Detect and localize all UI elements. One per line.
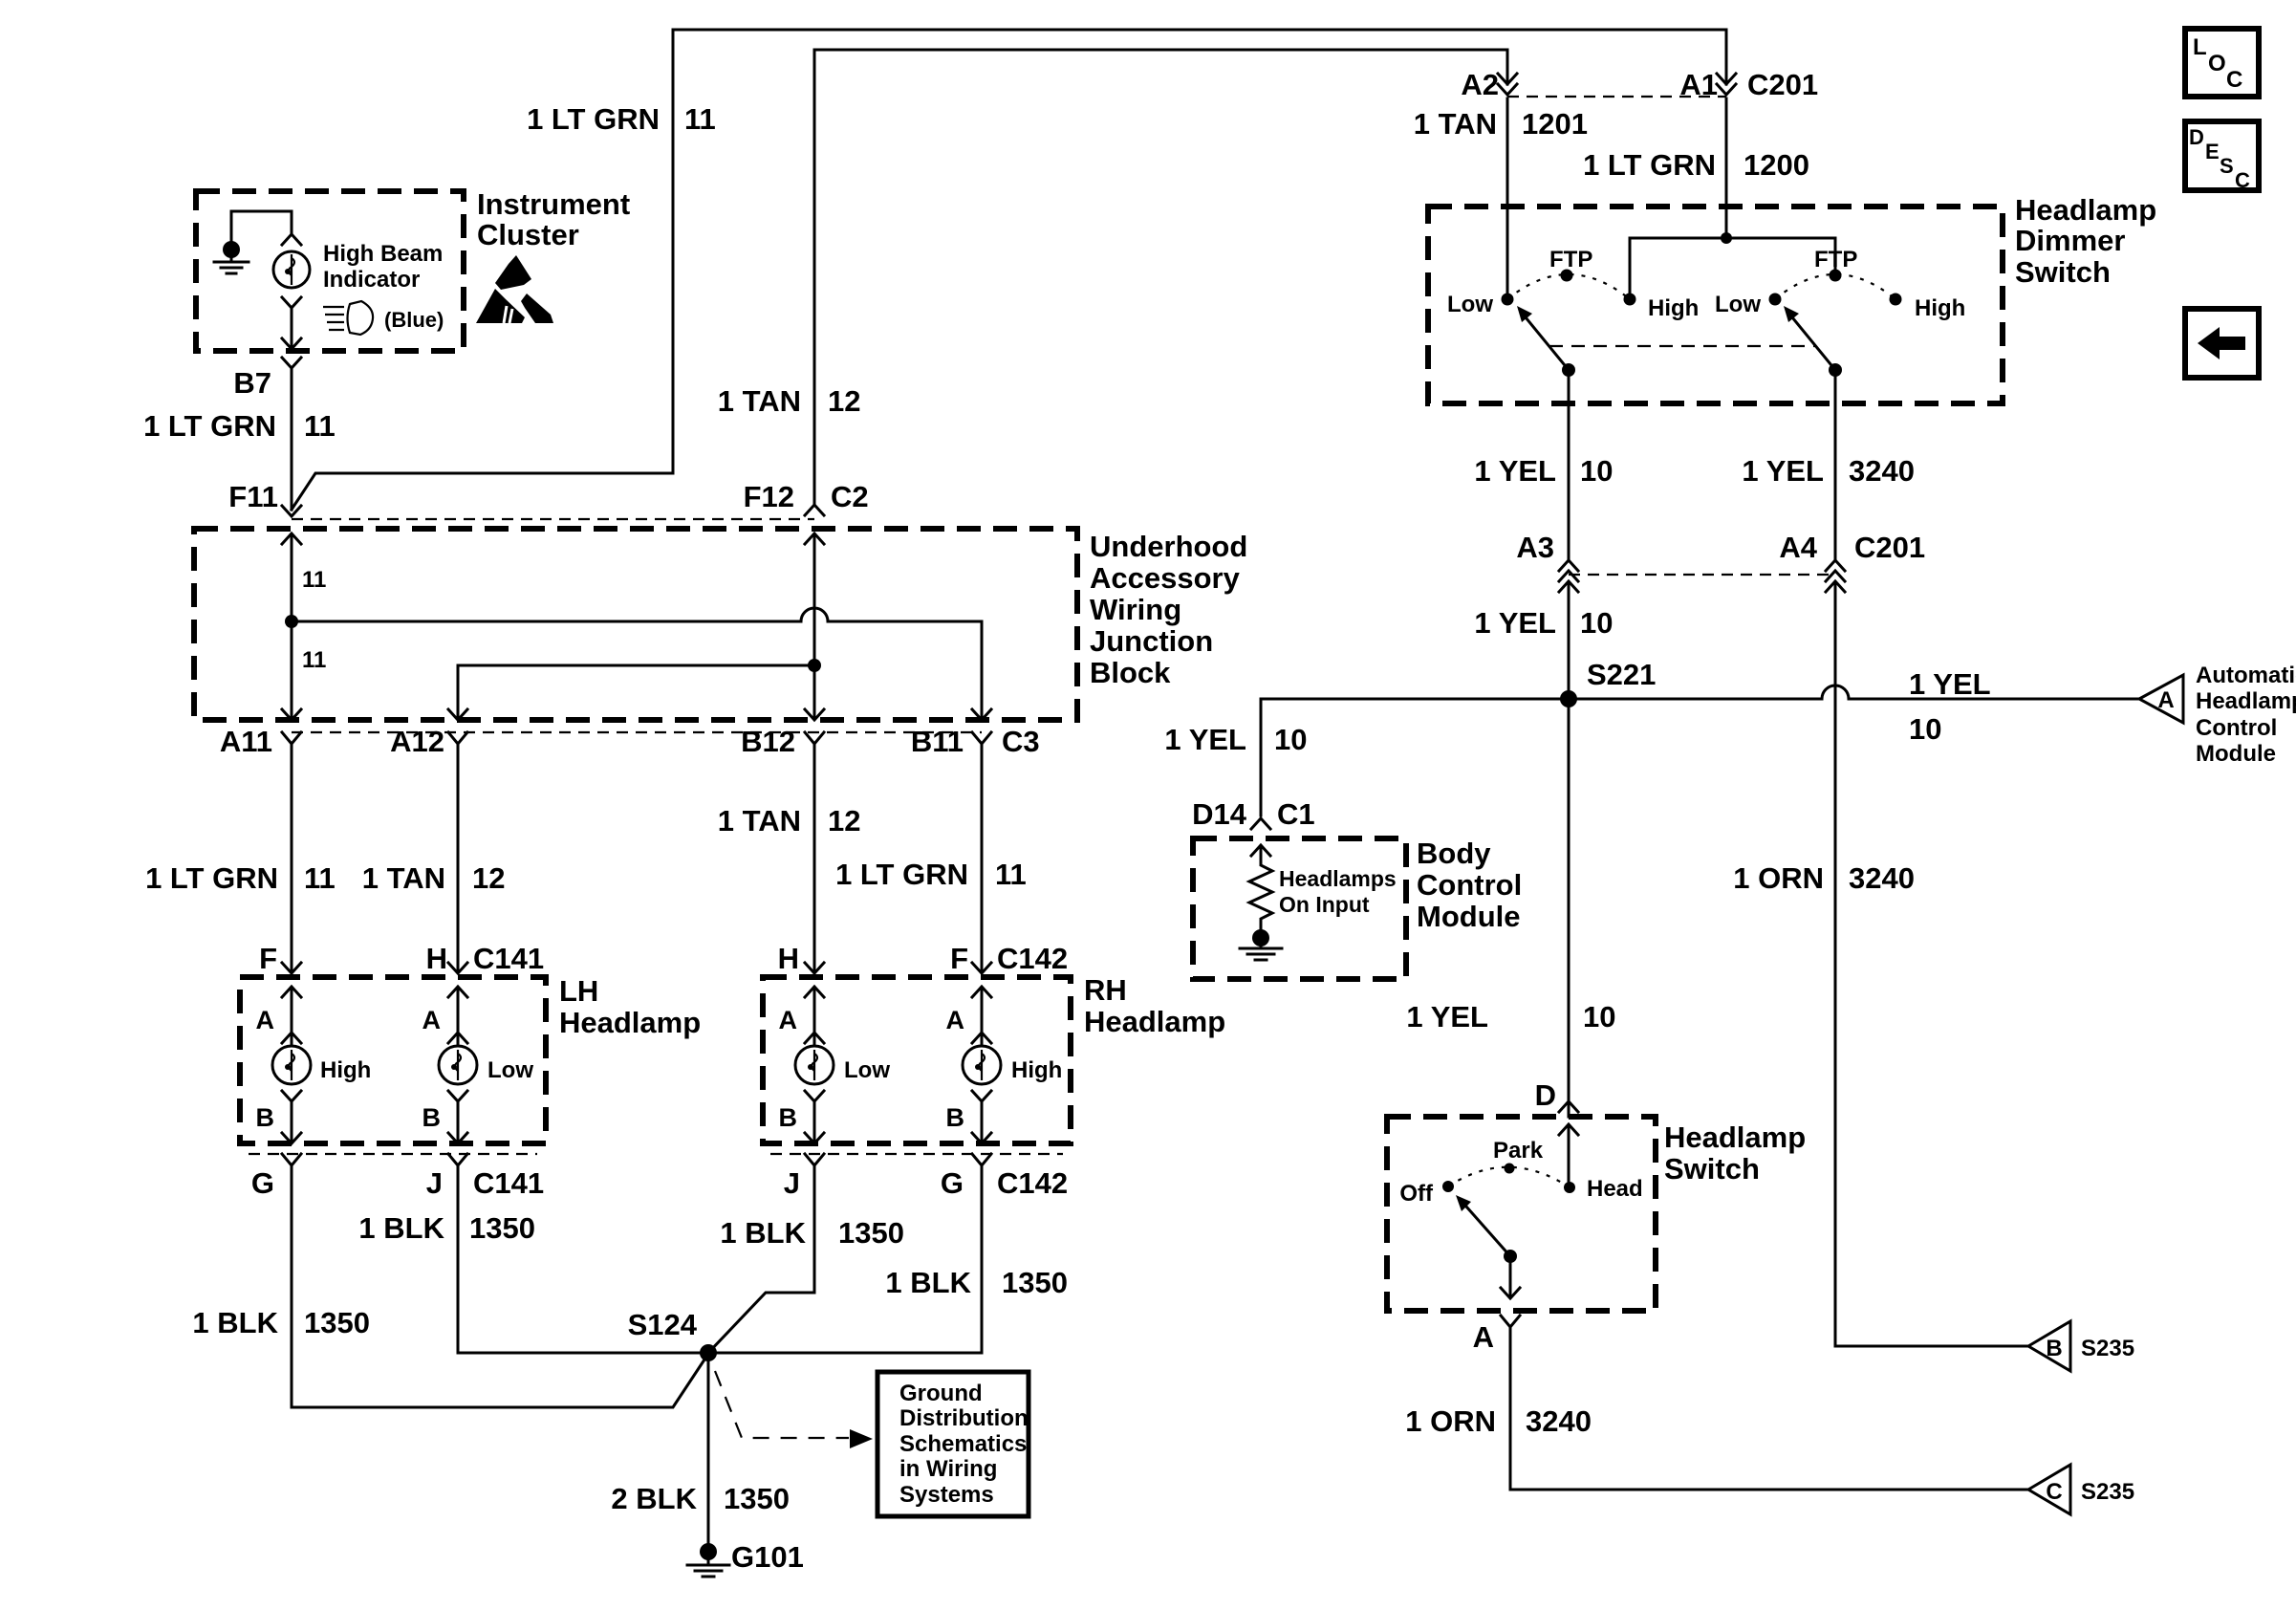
wire 1 BLK G LH to S124 <box>292 1165 708 1407</box>
svg-text:Instrument: Instrument <box>477 187 630 221</box>
svg-text:3240: 3240 <box>1849 861 1915 895</box>
svg-text:1200: 1200 <box>1744 148 1809 182</box>
leader to ground distribution note <box>715 1371 849 1438</box>
svg-text:1 LT GRN: 1 LT GRN <box>145 861 278 895</box>
wire S221 horizontal with hop <box>1261 685 2139 699</box>
dimmer switch 2 arm <box>1829 363 1842 377</box>
svg-text:A12: A12 <box>390 725 444 758</box>
svg-text:10: 10 <box>1580 606 1613 640</box>
splice S124 <box>700 1344 717 1361</box>
RH headlamp box <box>763 977 1071 1143</box>
lamp RH High <box>963 987 1001 1143</box>
svg-text:A3: A3 <box>1516 531 1554 564</box>
connector C1 <box>1251 818 1270 829</box>
terminal Y J <box>448 1154 467 1165</box>
svg-text:11: 11 <box>684 102 716 136</box>
svg-text:Cluster: Cluster <box>477 218 579 251</box>
svg-text:C3: C3 <box>1002 725 1040 758</box>
svg-text:1 TAN: 1 TAN <box>362 861 445 895</box>
headlamp switch arc <box>1448 1167 1570 1187</box>
dimmer feed bar <box>1630 238 1835 293</box>
svg-text:10: 10 <box>1909 712 1941 746</box>
connector C201 top A1 <box>1717 74 1736 84</box>
connector line C141 row <box>249 1153 537 1155</box>
svg-text:1 ORN: 1 ORN <box>1405 1404 1496 1438</box>
svg-text:Headlamp: Headlamp <box>1664 1120 1806 1154</box>
svg-text:D: D <box>1535 1078 1556 1112</box>
dimmer switch 2 arc <box>1775 274 1895 299</box>
wire 2 BLK 1350 to ground <box>707 1353 710 1543</box>
wire dimmer 2 output <box>1834 370 1837 558</box>
wire jb left vertical <box>291 535 293 718</box>
svg-text:B: B <box>779 1103 798 1132</box>
svg-text:Automatic: Automatic <box>2196 663 2296 688</box>
svg-text:1 YEL: 1 YEL <box>1909 667 1991 701</box>
wire 1 ORN 3240 to C S235 <box>1510 1327 2028 1490</box>
svg-text:C141: C141 <box>473 1166 544 1200</box>
svg-text:Control: Control <box>1417 868 1522 902</box>
connector C201 lower A4 <box>1826 560 1845 571</box>
wire B11 to RH F <box>981 744 984 971</box>
LH headlamp box <box>240 977 546 1143</box>
svg-text:11: 11 <box>304 861 336 895</box>
svg-text:C201: C201 <box>1747 68 1818 101</box>
connector C201 lower A3 <box>1559 560 1578 571</box>
headlamp switch contacts <box>1564 1182 1575 1193</box>
terminal Y J RH <box>805 1154 824 1165</box>
svg-text:1 YEL: 1 YEL <box>1164 723 1246 756</box>
svg-text:Headlamps: Headlamps <box>1279 866 1397 891</box>
svg-text:B11: B11 <box>911 725 964 758</box>
headlamp switch arm <box>1504 1250 1517 1263</box>
svg-text:LH: LH <box>559 974 598 1008</box>
svg-text:Ground: Ground <box>899 1381 983 1406</box>
wire 1 YEL 10 A3 to S221 <box>1568 583 1570 699</box>
terminal Y A <box>1501 1316 1520 1327</box>
svg-text:A: A <box>256 1006 275 1034</box>
svg-text:10: 10 <box>1580 454 1613 488</box>
terminal Y G <box>282 1154 301 1165</box>
svg-text:Headlamp: Headlamp <box>2015 193 2156 227</box>
connector line C142 row <box>770 1153 1063 1155</box>
svg-text:1350: 1350 <box>724 1482 790 1515</box>
svg-text:A1: A1 <box>1679 68 1718 101</box>
svg-text:Module: Module <box>1417 900 1521 933</box>
connector C S235 <box>2028 1465 2070 1514</box>
svg-text:Switch: Switch <box>2015 255 2111 289</box>
connector F11 <box>282 506 301 516</box>
body control module box <box>1193 838 1406 979</box>
connector line C3 row <box>292 731 982 733</box>
svg-text:1201: 1201 <box>1522 107 1588 141</box>
connector D <box>1559 1101 1578 1112</box>
svg-text:1350: 1350 <box>304 1306 370 1339</box>
svg-text:F: F <box>259 942 277 975</box>
svg-text:Switch: Switch <box>1664 1152 1760 1186</box>
svg-text:Low: Low <box>844 1057 890 1083</box>
splice S221 <box>1560 690 1577 707</box>
terminal chevrons above headlamp boxes <box>282 963 301 973</box>
terminal Y B12 <box>805 732 824 744</box>
wire B12 to RH H <box>813 744 816 971</box>
svg-text:High Beam: High Beam <box>323 241 443 267</box>
connector line C201 lower <box>1569 574 1835 576</box>
svg-text:Off: Off <box>1399 1181 1434 1207</box>
svg-text:Head: Head <box>1587 1176 1643 1202</box>
svg-text:C142: C142 <box>997 1166 1068 1200</box>
terminal Y G RH <box>972 1154 991 1165</box>
svg-text:3240: 3240 <box>1526 1404 1592 1438</box>
svg-text:D: D <box>2189 125 2204 149</box>
wire jb horizontal 11 with hop <box>292 608 982 621</box>
svg-text:High: High <box>1648 295 1699 321</box>
svg-text:A: A <box>1473 1320 1494 1354</box>
svg-text:B12: B12 <box>741 725 795 758</box>
headlamps on input resistor <box>1251 845 1270 856</box>
svg-text:G: G <box>941 1166 964 1200</box>
svg-text:1 YEL: 1 YEL <box>1474 606 1556 640</box>
svg-text:Low: Low <box>1715 292 1761 317</box>
svg-text:H: H <box>426 942 447 975</box>
connector C201 top A2 <box>1498 74 1517 84</box>
headlamp switch head feed <box>1559 1124 1578 1135</box>
svg-text:1 TAN: 1 TAN <box>1414 107 1497 141</box>
lamp LH Low <box>439 987 477 1143</box>
underhood accessory wiring junction block box <box>194 529 1077 720</box>
svg-text:Headlamp: Headlamp <box>2196 688 2296 714</box>
svg-text:12: 12 <box>472 861 505 895</box>
svg-text:Low: Low <box>487 1057 533 1083</box>
svg-text:S: S <box>2220 154 2234 178</box>
wire A2 into dimmer <box>1506 98 1509 294</box>
svg-text:On Input: On Input <box>1279 892 1370 917</box>
svg-text:1 YEL: 1 YEL <box>1406 1000 1488 1033</box>
svg-text:G: G <box>251 1166 274 1200</box>
svg-text:11: 11 <box>302 647 326 673</box>
junction node jb left <box>285 615 298 628</box>
wire A12 to LH H <box>457 744 460 971</box>
svg-text:2 BLK: 2 BLK <box>611 1482 697 1515</box>
svg-text:A11: A11 <box>220 725 272 758</box>
svg-text:11: 11 <box>995 858 1027 891</box>
ground (instrument cluster) <box>231 211 292 242</box>
svg-text:Headlamp: Headlamp <box>559 1006 701 1039</box>
svg-text:C1: C1 <box>1277 797 1315 831</box>
svg-text:1 BLK: 1 BLK <box>192 1306 278 1339</box>
svg-text:F11: F11 <box>228 480 278 513</box>
terminal Y B11 <box>972 732 991 744</box>
svg-text:B7: B7 <box>233 366 271 400</box>
instrument cluster box <box>196 191 464 351</box>
svg-text:D14: D14 <box>1192 797 1247 831</box>
connector A automatic headlamp control module <box>2139 675 2183 723</box>
wire jb F12-B12 vertical <box>813 535 816 718</box>
svg-text:S124: S124 <box>628 1308 698 1341</box>
svg-text:(Blue): (Blue) <box>384 308 444 332</box>
wire 1 LT GRN 11 B7-F11 <box>291 370 293 510</box>
svg-text:High: High <box>1915 295 1965 321</box>
svg-text:E: E <box>2205 140 2220 163</box>
lamp RH Low <box>795 987 834 1143</box>
svg-text:S221: S221 <box>1587 658 1656 691</box>
svg-text:Control: Control <box>2196 715 2277 741</box>
LOC box <box>2185 29 2259 97</box>
connector B S235 <box>2028 1321 2070 1371</box>
svg-text:Indicator: Indicator <box>323 267 420 293</box>
terminal Y A11 <box>282 732 301 744</box>
svg-text:Low: Low <box>1447 292 1493 317</box>
svg-text:11: 11 <box>302 567 326 593</box>
wire 1 BLK J RH to S124 <box>708 1165 814 1353</box>
svg-text:C: C <box>2235 168 2250 192</box>
svg-text:J: J <box>784 1166 800 1200</box>
terminal F12 inside junction block <box>805 533 824 544</box>
high beam indicator lamp <box>282 234 301 245</box>
svg-text:1 YEL: 1 YEL <box>1742 454 1824 488</box>
svg-text:1 LT GRN: 1 LT GRN <box>1583 148 1716 182</box>
svg-text:10: 10 <box>1274 723 1307 756</box>
svg-text:A4: A4 <box>1779 531 1817 564</box>
svg-text:B: B <box>422 1103 442 1132</box>
lamp LH High <box>272 987 311 1143</box>
svg-text:1 BLK: 1 BLK <box>885 1266 971 1299</box>
svg-text:B: B <box>2046 1336 2062 1361</box>
svg-text:Park: Park <box>1493 1138 1544 1164</box>
svg-text:S235: S235 <box>2081 1479 2134 1505</box>
svg-text:3240: 3240 <box>1849 454 1915 488</box>
svg-text:O: O <box>2208 51 2226 76</box>
wire 1 ORN 3240 A4 to B S235 <box>1835 583 2028 1346</box>
svg-text:A: A <box>2157 687 2174 713</box>
connector line C201 top <box>1507 96 1726 98</box>
svg-text:Headlamp: Headlamp <box>1084 1005 1225 1038</box>
wire A1 into dimmer <box>1725 98 1728 238</box>
ground G101 <box>700 1543 717 1560</box>
back arrow box <box>2185 309 2259 378</box>
wire jb A12 branch <box>458 665 814 718</box>
svg-text:H: H <box>778 942 799 975</box>
wire 1 YEL 10 S221 to headlamp switch <box>1568 699 1570 1099</box>
svg-text:Accessory: Accessory <box>1090 561 1241 595</box>
connector F12 <box>805 505 824 515</box>
svg-text:RH: RH <box>1084 973 1127 1007</box>
svg-text:G101: G101 <box>731 1540 804 1574</box>
terminal Y A12 <box>448 732 467 744</box>
svg-text:J: J <box>426 1166 443 1200</box>
dimmer switch 1 arm <box>1562 363 1575 377</box>
headlamp switch box <box>1387 1117 1656 1311</box>
svg-text:Module: Module <box>2196 741 2276 767</box>
svg-text:12: 12 <box>828 384 860 418</box>
connector B7 <box>282 358 301 368</box>
wire A11 to LH F <box>291 744 293 971</box>
svg-text:High: High <box>320 1057 371 1083</box>
svg-text:1350: 1350 <box>469 1211 535 1245</box>
dimmer switch 1 contacts <box>1502 294 1514 306</box>
svg-text:1 TAN: 1 TAN <box>718 804 801 838</box>
svg-text:A: A <box>946 1006 965 1034</box>
svg-text:Junction: Junction <box>1090 624 1213 658</box>
ground (body control module) <box>1252 929 1269 946</box>
svg-text:1 YEL: 1 YEL <box>1474 454 1556 488</box>
svg-text:A: A <box>422 1006 442 1034</box>
svg-text:A2: A2 <box>1461 68 1499 101</box>
wire jog from top run into F11 <box>292 473 673 510</box>
wire 1 BLK J LH horizontal <box>458 1165 982 1353</box>
svg-text:1 BLK: 1 BLK <box>358 1211 444 1245</box>
junction node jb right <box>808 659 821 672</box>
svg-text:FTP: FTP <box>1814 247 1857 272</box>
dimmer gang link <box>1549 345 1816 347</box>
svg-text:in Wiring: in Wiring <box>899 1456 997 1482</box>
svg-text:A: A <box>779 1006 798 1034</box>
svg-text:Dimmer: Dimmer <box>2015 224 2125 257</box>
svg-text:C: C <box>2046 1479 2062 1505</box>
wire 1 LT GRN 11 top run <box>673 30 1726 473</box>
wire jb B11 drop <box>981 621 984 718</box>
svg-text:Distribution: Distribution <box>899 1405 1029 1431</box>
svg-text:1 LT GRN: 1 LT GRN <box>527 102 660 136</box>
svg-text:1 LT GRN: 1 LT GRN <box>835 858 968 891</box>
svg-text:1350: 1350 <box>838 1216 904 1250</box>
headlamp beam icon <box>323 307 344 330</box>
svg-text:10: 10 <box>1583 1000 1615 1033</box>
svg-text:Block: Block <box>1090 656 1171 689</box>
svg-text:Body: Body <box>1417 837 1491 870</box>
svg-text:12: 12 <box>828 804 860 838</box>
svg-text:C: C <box>2226 67 2242 93</box>
DESC box <box>2185 121 2259 190</box>
svg-text:1 ORN: 1 ORN <box>1733 861 1824 895</box>
dimmer switch 2 contacts <box>1769 294 1782 306</box>
svg-text:S235: S235 <box>2081 1336 2134 1361</box>
svg-text:Underhood: Underhood <box>1090 530 1247 563</box>
svg-text:F12: F12 <box>744 480 794 513</box>
svg-text:High: High <box>1011 1057 1062 1083</box>
svg-text:L: L <box>2193 34 2207 60</box>
ground distribution schematics box <box>877 1372 1029 1516</box>
svg-text:C142: C142 <box>997 942 1068 975</box>
svg-text:1350: 1350 <box>1002 1266 1068 1299</box>
svg-text:FTP: FTP <box>1549 247 1592 272</box>
connector line C2 <box>292 518 814 520</box>
svg-text:C2: C2 <box>831 480 869 513</box>
svg-text:Systems: Systems <box>899 1482 994 1508</box>
svg-text:11: 11 <box>304 409 336 443</box>
wire arm to A <box>1509 1256 1512 1296</box>
wire dimmer 1 output <box>1568 370 1570 558</box>
svg-text:B: B <box>256 1103 275 1132</box>
headlamp dimmer switch box <box>1428 207 2003 403</box>
svg-text:1 LT GRN: 1 LT GRN <box>143 409 276 443</box>
dimmer switch 1 arc <box>1507 274 1630 299</box>
wire 1 TAN 12 top run <box>814 50 1507 505</box>
svg-text:F: F <box>950 942 968 975</box>
svg-text:Wiring: Wiring <box>1090 593 1181 626</box>
svg-text:B: B <box>946 1103 965 1132</box>
terminal F11 inside junction block <box>282 533 301 544</box>
ESD symbol <box>495 255 531 290</box>
wire 1 YEL 10 branch to BCM <box>1260 699 1263 816</box>
svg-text:1 TAN: 1 TAN <box>718 384 801 418</box>
svg-text:1 BLK: 1 BLK <box>720 1216 806 1250</box>
svg-text:Schematics: Schematics <box>899 1431 1027 1457</box>
svg-text:C141: C141 <box>473 942 544 975</box>
svg-text:C201: C201 <box>1854 531 1925 564</box>
terminal arrows at jb bottom edge <box>282 709 301 720</box>
